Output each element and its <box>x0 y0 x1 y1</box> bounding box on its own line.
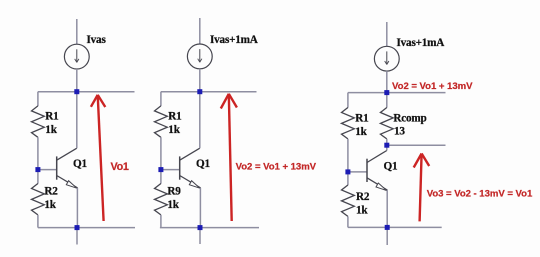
wire current source to top rail <box>199 69 201 92</box>
node bottom rail / emitter junction 2 <box>198 225 203 230</box>
svg-text:Q1: Q1 <box>384 161 399 173</box>
svg-text:Vo2 = Vo1 + 13mV: Vo2 = Vo1 + 13mV <box>392 81 473 92</box>
transistor Q1 emitter arrowhead (circuit 3) <box>376 183 387 191</box>
wire base node to transistor base 2 <box>161 169 180 171</box>
resistor R1 <box>32 106 45 137</box>
svg-text:Q1: Q1 <box>73 158 88 170</box>
wire top rail to R1 <box>37 92 39 106</box>
wire R9 from base node <box>160 170 162 184</box>
svg-text:13: 13 <box>394 126 405 138</box>
circuit 1: wire from top to current source <box>76 19 78 44</box>
svg-text:R1: R1 <box>355 112 369 124</box>
node base junction 3 <box>345 169 350 174</box>
transistor Q1 collector diagonal (circuit 3) <box>367 151 387 163</box>
wire R2 to bottom rail 3 <box>347 216 349 227</box>
wire stub below bottom rail 3 <box>386 227 388 245</box>
wire emitter to bottom rail <box>76 188 78 228</box>
wire R2 from base node 3 <box>347 172 349 185</box>
wire emitter to bottom rail 2 <box>199 188 201 228</box>
transistor Q1 collector diagonal <box>57 148 77 160</box>
resistor R9 <box>155 184 168 215</box>
transistor Q1 emitter arrowhead (circuit 2) <box>189 181 200 189</box>
current source Ivas <box>64 44 89 69</box>
transistor Q1 collector diagonal (circuit 2) <box>180 148 200 160</box>
transistor Q1 emitter diagonal <box>57 176 78 188</box>
wire top rail to R1 (circuit 2) <box>160 92 162 106</box>
node base junction 2 <box>158 167 163 172</box>
circuit 2: wire from top to current source <box>199 18 201 44</box>
transistor Q1 emitter diagonal (circuit 3) <box>367 178 387 190</box>
svg-text:R1: R1 <box>168 110 182 122</box>
circuit 1 top rail wire <box>38 91 135 93</box>
wire top rail to R1 (circuit 3) <box>347 93 349 108</box>
resistor Rcomp <box>380 108 393 139</box>
wire R1 to base node (circuit 2) <box>160 137 162 169</box>
annotation arrow Vo2 <box>229 94 232 221</box>
wire stub below bottom rail <box>76 228 78 245</box>
wire R2 to bottom rail <box>37 215 39 228</box>
wire current source to top rail <box>76 69 78 92</box>
svg-text:R1: R1 <box>45 110 59 122</box>
transistor Q1 base bar (circuit 2) <box>179 156 181 179</box>
transistor Q1 base bar <box>56 156 58 179</box>
svg-text:R9: R9 <box>167 185 181 197</box>
wire R9 to bottom rail <box>160 215 162 228</box>
transistor Q1 base bar (circuit 3) <box>366 159 368 182</box>
svg-text:R2: R2 <box>44 185 58 197</box>
wire base node to transistor base <box>38 169 57 171</box>
svg-text:R2: R2 <box>356 191 370 203</box>
svg-text:Vo3 = Vo2 - 13mV = Vo1: Vo3 = Vo2 - 13mV = Vo1 <box>427 189 533 200</box>
wire collector to mid node 3 <box>386 145 388 150</box>
node Rcomp / collector junction <box>384 143 389 148</box>
annotation arrow Vo1 <box>98 95 104 221</box>
resistor R2 (circuit 3) <box>342 185 355 216</box>
resistor R2 <box>32 184 45 215</box>
wire Rcomp to collector node <box>386 139 388 145</box>
wire R1 to base node (circuit 3) <box>347 139 349 172</box>
circuit 3 top rail wire <box>348 92 446 94</box>
current source Ivas+1mA (circuit 3) <box>374 46 399 71</box>
svg-text:1k: 1k <box>44 199 56 211</box>
node top rail junction 3 <box>384 90 389 95</box>
svg-text:Ivas: Ivas <box>87 34 107 46</box>
circuit 2 top rail wire <box>161 91 257 93</box>
node top rail / collector junction <box>74 89 79 94</box>
wire collector to top rail 2 <box>199 92 201 149</box>
wire emitter to bottom rail 3 <box>386 190 388 227</box>
svg-text:Vo1: Vo1 <box>111 161 129 173</box>
wire R2 from base node <box>37 170 39 184</box>
transistor Q1 emitter diagonal (circuit 2) <box>180 176 201 188</box>
svg-text:1k: 1k <box>355 126 367 138</box>
svg-text:Ivas+1mA: Ivas+1mA <box>397 37 445 49</box>
wire stub below bottom rail 2 <box>199 228 201 244</box>
svg-text:1k: 1k <box>168 124 180 136</box>
wire rail to Rcomp <box>386 93 388 108</box>
svg-text:1k: 1k <box>45 124 57 136</box>
circuit 2 bottom rail wire <box>160 227 259 229</box>
node bottom rail / emitter junction <box>75 225 80 230</box>
svg-text:Vo2 = Vo1 + 13mV: Vo2 = Vo1 + 13mV <box>236 162 317 173</box>
wire base node to transistor base 3 <box>348 171 367 173</box>
svg-text:1k: 1k <box>356 204 368 216</box>
circuit 3 bottom rail wire <box>348 226 442 228</box>
svg-text:Rcomp: Rcomp <box>393 112 426 124</box>
node base junction <box>35 167 40 172</box>
circuit 3: wire from top to current source <box>386 22 388 47</box>
node top rail / collector junction 2 <box>197 89 202 94</box>
resistor R1 (circuit 2) <box>155 106 168 137</box>
wire R1 to base node <box>37 137 39 169</box>
wire collector to top rail <box>76 92 78 149</box>
transistor Q1 emitter arrowhead <box>66 181 77 189</box>
circuit 1 bottom rail wire <box>38 227 135 229</box>
wire collector node to right (Vo3 tap) <box>387 144 446 146</box>
svg-text:Ivas+1mA: Ivas+1mA <box>210 34 258 46</box>
annotation arrow Vo3 <box>420 154 422 222</box>
svg-text:1k: 1k <box>167 199 179 211</box>
wire current source to top rail 3 <box>386 71 388 93</box>
node bottom rail / emitter junction 3 <box>385 225 390 230</box>
resistor R1 (circuit 3) <box>342 108 355 139</box>
current source Ivas+1mA <box>187 44 212 69</box>
svg-text:Q1: Q1 <box>196 158 211 170</box>
